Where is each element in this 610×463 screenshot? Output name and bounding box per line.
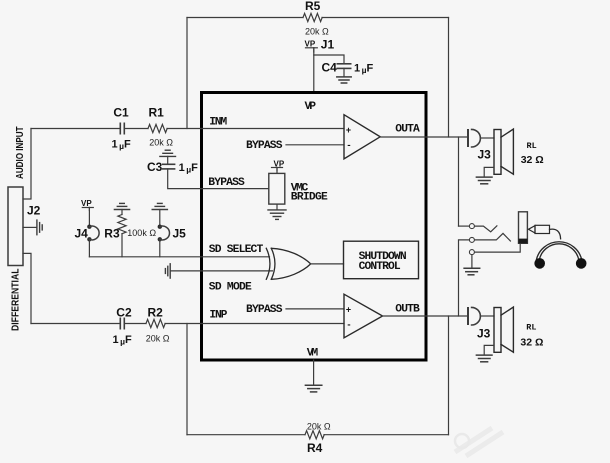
ground below VMC bridge (268, 210, 286, 220)
wire R1 to INM pin (167, 128, 344, 130)
svg-text:20k Ω: 20k Ω (305, 27, 329, 37)
node VP above J4 (82, 208, 93, 211)
capacitor C4 (337, 64, 350, 69)
wire R3 to select bus (121, 234, 123, 257)
op-amp U1B (344, 294, 383, 338)
wire VP to J4 (88, 208, 90, 225)
jack tip contact circle (469, 224, 474, 229)
resistor R5 (303, 13, 322, 21)
ground at SD MODE left-pointing (165, 264, 170, 278)
capacitor C1 (120, 123, 124, 133)
ground below speaker A (476, 177, 492, 184)
resistor R1 (148, 124, 167, 132)
ground at J2 right-pointing (37, 220, 42, 235)
svg-text:100k Ω: 100k Ω (127, 228, 156, 238)
resistor R4 (305, 431, 324, 439)
svg-text:INM: INM (209, 117, 227, 129)
wire speaker B to ground (484, 345, 494, 354)
ground below jack (464, 268, 480, 275)
svg-text:J5: J5 (173, 227, 187, 241)
speaker A (494, 129, 513, 174)
svg-text:DIFFERENTIAL: DIFFERENTIAL (11, 269, 22, 332)
wire speaker A to ground (484, 167, 494, 176)
jack J1 sleeve body (519, 212, 528, 244)
wire XOR output to shutdown control (311, 263, 344, 265)
svg-text:SD MODE: SD MODE (209, 282, 252, 294)
wire J4 to select bus (88, 239, 90, 256)
node VP above VMC bridge (272, 160, 285, 171)
ground below VM (305, 385, 321, 392)
svg-text:VM: VM (307, 348, 319, 360)
wire ground to C3 (167, 156, 169, 164)
capacitor J3 output coupling B (468, 307, 480, 325)
svg-text:VP: VP (305, 40, 316, 49)
wire J2 lower stub (23, 253, 31, 323)
wire top loop horizontal left of R5 (187, 17, 303, 19)
svg-text:CONTROL: CONTROL (359, 261, 401, 273)
wire C4 to ground (343, 68, 345, 76)
wire cap to speaker A (480, 137, 494, 139)
wire VP trunk to IC box (313, 48, 315, 93)
wire OUTB (383, 315, 469, 317)
jack ring contact circle (469, 237, 474, 242)
svg-text:INP: INP (209, 310, 227, 322)
ground below C4 (337, 77, 351, 83)
wire ground to J5 (159, 210, 161, 225)
wire R2 to INP pin (165, 323, 344, 325)
svg-text:20k Ω: 20k Ω (149, 138, 173, 148)
svg-text:+: + (346, 126, 351, 136)
jumper J4 (87, 225, 99, 242)
wire INM input segment (31, 128, 120, 130)
svg-text:BRIDGE: BRIDGE (291, 192, 328, 204)
wire bottom loop horizontal right of R4 (324, 434, 449, 436)
capacitor C2 (120, 318, 124, 328)
svg-text:J1: J1 (321, 38, 335, 52)
wire SD MODE (170, 270, 272, 272)
svg-text:VP: VP (305, 101, 317, 113)
ground above C3 (160, 150, 176, 156)
svg-text:32 Ω: 32 Ω (520, 337, 543, 349)
svg-text:BYPASS: BYPASS (246, 140, 283, 152)
svg-text:1µF: 1µF (179, 162, 199, 175)
svg-text:R3: R3 (104, 227, 120, 241)
wire J5 to select bus (159, 239, 161, 256)
wire BYPASS B to op-amp (286, 308, 344, 310)
wire bottom feedback left vertical (186, 324, 188, 435)
wire VMC bridge to ground (276, 204, 278, 210)
wire SD SELECT bus (89, 256, 269, 258)
wire INP input segment (31, 323, 120, 325)
svg-text:32 Ω: 32 Ω (521, 154, 544, 166)
resistor R2 (146, 319, 165, 327)
ground above J5 (152, 203, 167, 209)
svg-text:R2: R2 (148, 306, 164, 320)
watermark faint (455, 428, 503, 456)
svg-text:+: + (346, 306, 351, 316)
wire OUTA (380, 136, 468, 138)
svg-text:C1: C1 (113, 106, 129, 120)
op-amp U1A (344, 115, 380, 159)
ground above R3 (114, 203, 129, 209)
wire top loop horizontal right of R5 (322, 17, 449, 19)
svg-text:1µF: 1µF (113, 334, 133, 347)
headphone earpiece left (534, 258, 545, 269)
headphone band (536, 242, 582, 261)
svg-text:BYPASS: BYPASS (208, 177, 245, 189)
svg-text:-: - (346, 141, 351, 151)
svg-text:OUTA: OUTA (395, 124, 420, 136)
wire VP to VMC bridge (276, 168, 278, 174)
svg-text:C2: C2 (116, 306, 132, 320)
wire C2 to R2 (124, 323, 146, 325)
gate XOR shutdown logic (266, 248, 310, 279)
svg-text:J4: J4 (75, 227, 89, 241)
svg-text:J3: J3 (477, 327, 491, 341)
jack ring switch arm (475, 233, 511, 241)
svg-text:1µF: 1µF (354, 63, 374, 76)
svg-text:OUTB: OUTB (395, 304, 420, 316)
speaker B (494, 307, 513, 352)
svg-text:BYPASS: BYPASS (246, 304, 283, 316)
wire sleeve contact to jack body (475, 243, 521, 252)
wire C1 to R1 (124, 128, 148, 130)
block VMC BRIDGE (269, 173, 285, 204)
wire sleeve contact to ground (471, 255, 473, 268)
resistor R3 (118, 215, 126, 234)
wire headphone ring contact to OUTB (459, 240, 470, 316)
wire OUTA junction down to headphone tip (458, 137, 460, 226)
svg-text:VP: VP (81, 199, 92, 208)
wire C4 branch (314, 55, 344, 64)
svg-text:SD SELECT: SD SELECT (209, 244, 264, 256)
node J1 VP power symbol (306, 48, 318, 52)
svg-text:R4: R4 (307, 441, 323, 455)
wire C3 to BYPASS pin (168, 169, 269, 189)
jack sleeve contact circle (469, 250, 474, 255)
svg-text:-: - (346, 321, 351, 331)
svg-text:J2: J2 (27, 204, 41, 218)
svg-text:RL: RL (526, 323, 536, 333)
capacitor J3 output coupling A (468, 129, 480, 147)
svg-text:AUDIO INPUT: AUDIO INPUT (15, 127, 26, 180)
svg-text:RL: RL (527, 141, 537, 151)
jumper J5 (158, 225, 170, 242)
headphone plug (528, 225, 549, 233)
svg-text:20k Ω: 20k Ω (307, 422, 331, 432)
block SHUTDOWN CONTROL (344, 241, 419, 279)
ground below speaker B (476, 355, 492, 362)
wire VM to ground (313, 360, 315, 385)
wire J2 upper stub (23, 129, 31, 200)
headphone cable (550, 229, 561, 239)
wire J2 ground stub (23, 226, 37, 228)
IC box TPA amplifier (202, 93, 427, 361)
wire top feedback loop left vertical (186, 18, 188, 129)
svg-text:C4: C4 (322, 61, 338, 75)
capacitor C3 (163, 164, 175, 169)
svg-text:J3: J3 (478, 148, 492, 162)
svg-text:1µF: 1µF (112, 139, 132, 152)
svg-text:20k Ω: 20k Ω (146, 334, 170, 344)
svg-text:R5: R5 (305, 0, 321, 13)
wire top loop right vertical to OUTA (448, 18, 450, 138)
svg-text:R1: R1 (149, 106, 165, 120)
wire ground to R3 (121, 210, 123, 215)
wire bottom loop horizontal left of R4 (187, 434, 305, 436)
headphone earpiece right (576, 258, 587, 269)
connector J2 (8, 187, 23, 266)
wire cap to speaker B (480, 315, 494, 317)
wire BYPASS A to op-amp (286, 144, 344, 146)
wire to headphone tip contact (459, 225, 470, 227)
svg-text:C3: C3 (147, 160, 163, 174)
jack tip switch arm (475, 226, 497, 232)
wire bottom loop right vertical to OUTB (448, 316, 450, 435)
